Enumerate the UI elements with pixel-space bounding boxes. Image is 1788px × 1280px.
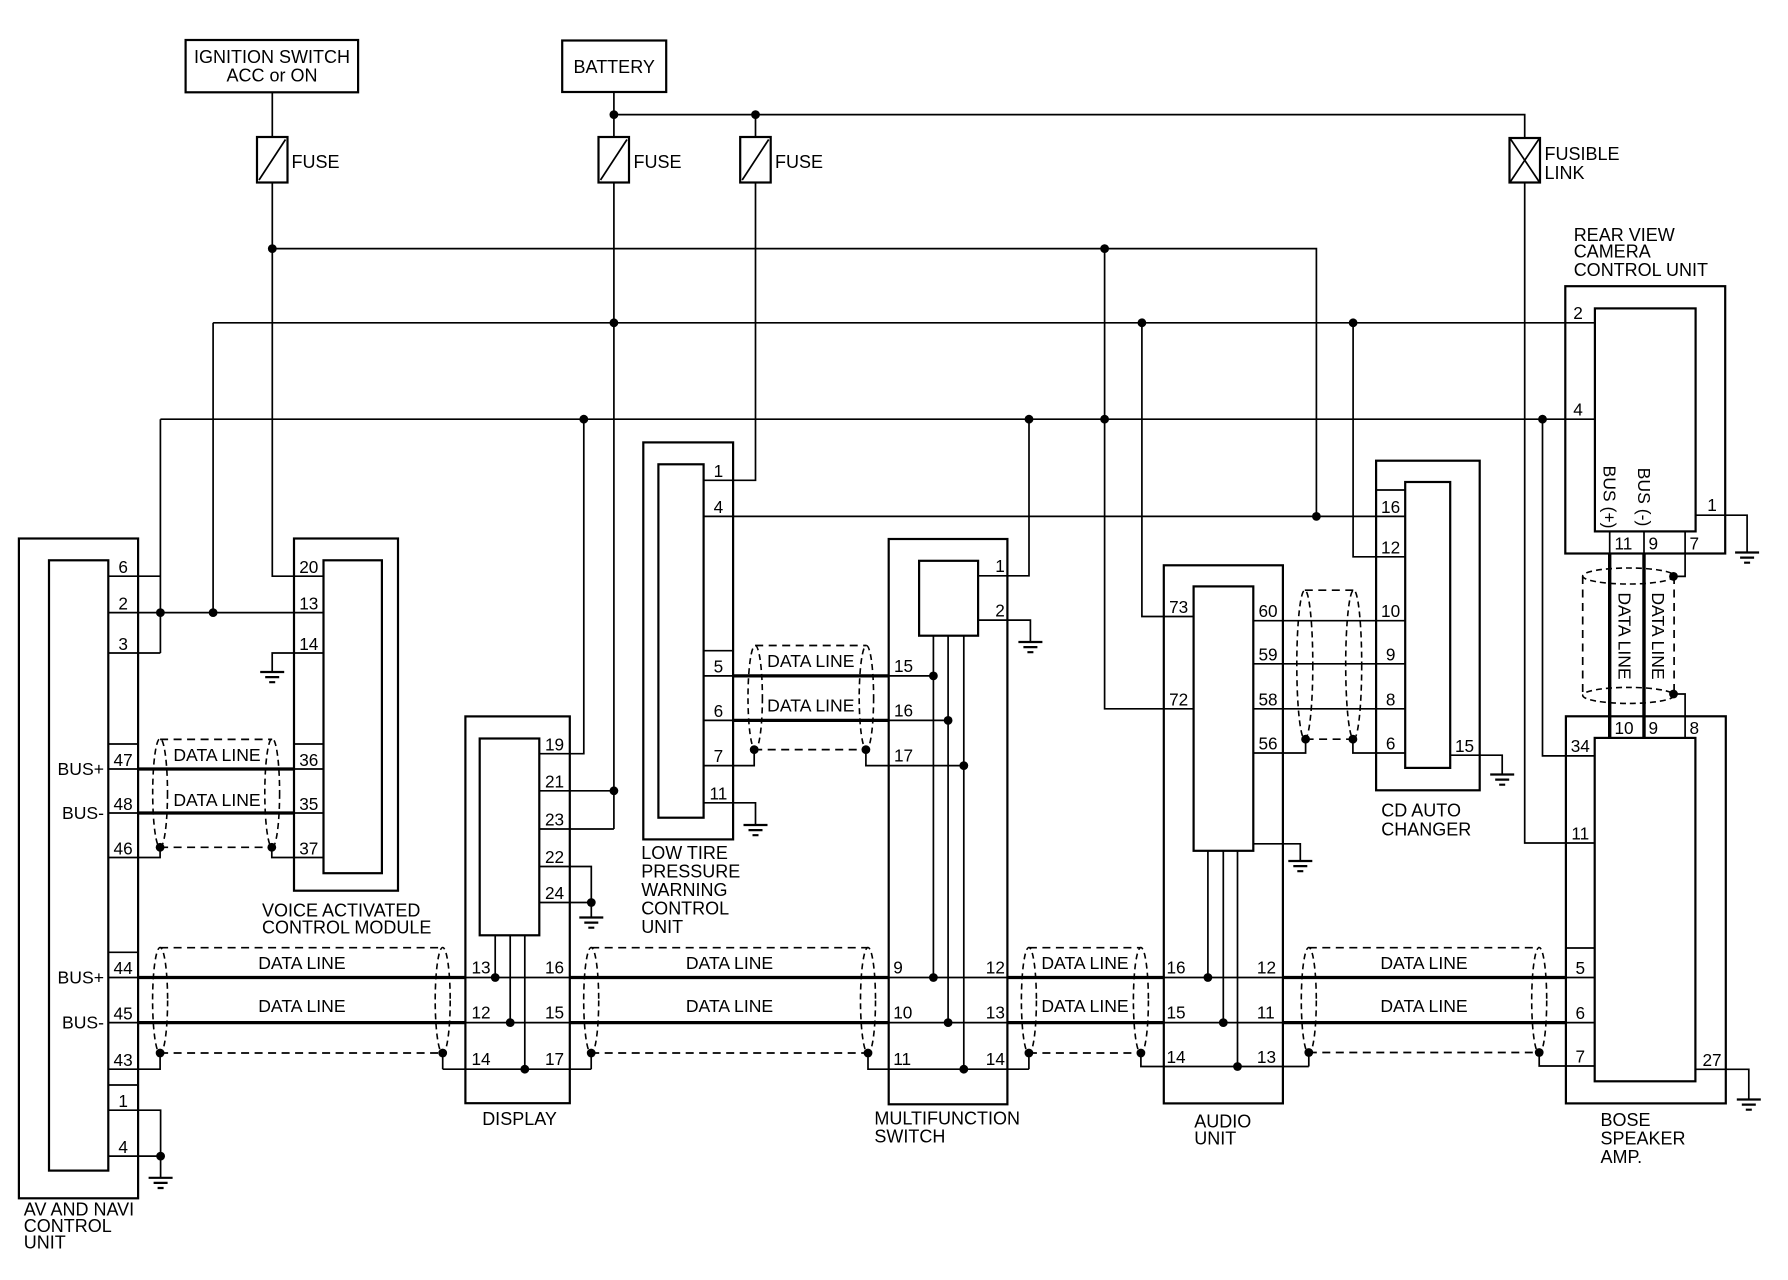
shield ellipse left LT (748, 646, 762, 750)
svg-text:DISPLAY: DISPLAY (482, 1109, 557, 1129)
svg-text:14: 14 (1167, 1047, 1187, 1067)
wire down to display ground (590, 903, 592, 918)
AV and navi control unit connector box (49, 560, 108, 1170)
svg-text:12: 12 (1257, 958, 1276, 978)
svg-text:DATA LINE: DATA LINE (258, 996, 345, 1016)
svg-text:1: 1 (1707, 495, 1717, 515)
svg-text:6: 6 (714, 701, 724, 721)
svg-text:1: 1 (995, 556, 1005, 576)
node shield dot tube2 right (864, 1049, 873, 1058)
svg-text:DATA LINE: DATA LINE (1380, 996, 1467, 1016)
svg-text:BUS (+): BUS (+) (1600, 465, 1620, 528)
node battery junction (610, 110, 619, 119)
svg-text:DATA LINE: DATA LINE (1041, 996, 1128, 1016)
shield ellipse left audio-CD (1297, 590, 1313, 739)
svg-text:BUS-: BUS- (62, 1013, 104, 1033)
wire audio ground stub (1253, 844, 1300, 861)
node ACC to audio72 branch (1100, 244, 1109, 253)
node audio shield dot right (1349, 735, 1358, 744)
low tire pressure warning control unit outer box (643, 442, 733, 839)
shield top dashed tube4 (1309, 947, 1539, 949)
divider above pin 36 (294, 743, 324, 745)
svg-text:11: 11 (709, 784, 727, 804)
AV unit label (24, 1200, 134, 1253)
wire display pin 22 stub (539, 867, 591, 903)
camera unit label (1574, 225, 1708, 280)
svg-text:59: 59 (1258, 644, 1277, 664)
node MF11 junction (959, 1065, 968, 1074)
wire MF vertical 3 (963, 636, 965, 1069)
CD auto changer outer box (1376, 461, 1480, 791)
node shield dot left (156, 843, 165, 852)
svg-text:16: 16 (1167, 958, 1186, 978)
svg-text:4: 4 (118, 1137, 128, 1157)
svg-text:19: 19 (545, 735, 564, 755)
wire BUS plus camera to bose thick (1608, 554, 1611, 738)
multifunction switch inner box (919, 561, 978, 636)
svg-text:LINK: LINK (1545, 163, 1585, 183)
svg-text:14: 14 (299, 634, 319, 654)
shield top dashed LT (755, 645, 866, 647)
svg-text:45: 45 (114, 1004, 133, 1024)
svg-text:27: 27 (1702, 1050, 1721, 1070)
svg-text:11: 11 (1257, 1003, 1275, 1023)
divider above pin 16 (1376, 489, 1405, 491)
svg-text:12: 12 (1381, 538, 1400, 558)
svg-text:9: 9 (1386, 644, 1396, 664)
svg-text:5: 5 (714, 657, 724, 677)
wire camera pin 1 to ground (1696, 515, 1748, 552)
svg-text:5: 5 (1576, 958, 1586, 978)
wire display bottom stub 13 (494, 935, 496, 977)
node shield dot right (267, 843, 276, 852)
svg-text:6: 6 (118, 557, 128, 577)
svg-text:CONTROL UNIT: CONTROL UNIT (1574, 260, 1708, 280)
node bose34 tap (1538, 415, 1547, 424)
node multifunction1 tap (1025, 415, 1034, 424)
wire audio 59 to CD 9 (1253, 663, 1405, 665)
wire AV pin 46 shield stub (108, 847, 160, 857)
svg-text:BUS+: BUS+ (58, 968, 104, 988)
svg-text:15: 15 (1167, 1003, 1186, 1023)
shield ellipse right audio-CD (1346, 590, 1362, 739)
svg-text:DATA LINE: DATA LINE (1380, 953, 1467, 973)
shield drain dashed display-MF (591, 1052, 868, 1054)
wire audio 72 feed (1105, 249, 1194, 709)
CD auto changer label (1381, 801, 1471, 840)
shield drain LT-MF dashed (754, 749, 866, 751)
shield top dashed tube2 (591, 947, 868, 949)
svg-text:13: 13 (471, 958, 490, 978)
node pin2 acc junction (156, 608, 165, 617)
shield top dashed audio-CD (1305, 589, 1354, 591)
shield drain audio-CD dashed (1306, 738, 1353, 740)
node pin1 pin4 junction (156, 1152, 165, 1161)
svg-text:1: 1 (714, 461, 724, 481)
shield ellipse tube4 left (1301, 948, 1316, 1054)
svg-text:2: 2 (995, 601, 1005, 621)
node MF17 junction (959, 761, 968, 770)
svg-text:DATA LINE: DATA LINE (1648, 592, 1668, 679)
svg-text:22: 22 (545, 847, 564, 867)
wire audio bottom stub 16 (1207, 851, 1209, 978)
svg-text:CONTROL MODULE: CONTROL MODULE (262, 918, 431, 938)
bose label (1601, 1110, 1686, 1167)
svg-text:17: 17 (545, 1049, 564, 1069)
ground voice (260, 672, 284, 682)
wire bose 34 feed (1543, 419, 1595, 756)
svg-text:2: 2 (1573, 303, 1583, 323)
wire AV pin 43 shield stub (108, 1053, 160, 1069)
svg-text:BUS-: BUS- (62, 803, 104, 823)
wire CD pin 15 to ground (1450, 755, 1502, 774)
ground CD changer (1490, 775, 1514, 785)
wire down to AV ground (160, 1156, 162, 1178)
svg-text:ACC or ON: ACC or ON (226, 66, 317, 86)
fuse F2 (599, 137, 682, 183)
low tire connector box (658, 464, 703, 817)
svg-text:DATA LINE: DATA LINE (767, 651, 854, 671)
node display 14 junction (520, 1065, 529, 1074)
rear view camera connector box (1595, 308, 1696, 531)
shield ellipse tube1 left (153, 948, 168, 1054)
shield top dashed tube1 (160, 947, 443, 949)
svg-text:7: 7 (1690, 534, 1700, 554)
wire LT pin 7 shield stub (704, 750, 755, 766)
svg-text:7: 7 (1576, 1047, 1586, 1067)
svg-text:BUS (-): BUS (-) (1634, 468, 1654, 527)
svg-text:15: 15 (1455, 736, 1474, 756)
wire battery line left drop to AV pin2 line (212, 323, 214, 613)
wire CD 12 feed (1353, 323, 1405, 557)
node audio15 junction (1219, 1018, 1228, 1027)
node audio73 tap (1138, 318, 1147, 327)
wire voice pin 37 shield stub (272, 847, 324, 857)
wire ACC2 line to camera pin 4 (160, 418, 1595, 420)
wire fuse3 tap down (755, 115, 757, 137)
wire AV pin2 to voice pin13 (108, 612, 323, 614)
wire audio bottom stub 14 (1237, 851, 1239, 1067)
wire shield segment bose pin 7 (1539, 1053, 1595, 1067)
svg-text:58: 58 (1258, 689, 1277, 709)
shield drain dashed audio-bose (1309, 1052, 1539, 1054)
wire ACC2 left drop to AV pin 6 (159, 419, 161, 653)
node shield dot tube2 left (587, 1049, 596, 1058)
svg-text:60: 60 (1258, 601, 1277, 621)
node MF16 junction (944, 716, 953, 725)
node ACC audio72 junction (1100, 415, 1109, 424)
svg-text:2: 2 (118, 594, 128, 614)
wire MF pin 17 shield stub (866, 750, 964, 766)
svg-text:11: 11 (1615, 534, 1633, 554)
wire LT pin 11 to ground (704, 803, 756, 825)
svg-text:17: 17 (894, 746, 913, 766)
multifunction switch outer box (889, 539, 1008, 1104)
wire MF vertical 2 (947, 636, 949, 1023)
wire MF pin 2 to ground (978, 620, 1030, 642)
svg-text:BOSE: BOSE (1601, 1110, 1651, 1130)
ground camera (1735, 553, 1759, 563)
svg-text:MULTIFUNCTION: MULTIFUNCTION (874, 1109, 1020, 1129)
voice activated control module connector box (324, 560, 382, 873)
node pin2 battery junction (209, 608, 218, 617)
wire voice pin 14 to ground (272, 653, 323, 672)
svg-text:4: 4 (1573, 400, 1583, 420)
shield top dashed AV-voice (160, 738, 272, 740)
ignition switch box (186, 40, 359, 92)
node LT shield dot right (862, 745, 871, 754)
svg-text:44: 44 (114, 958, 134, 978)
svg-text:BATTERY: BATTERY (574, 57, 655, 77)
svg-text:AMP.: AMP. (1601, 1147, 1643, 1167)
node MF15 junction (929, 672, 938, 681)
wire shield riser display right (590, 1053, 592, 1069)
svg-text:9: 9 (893, 958, 903, 978)
ground multifunction (1018, 642, 1042, 652)
wire shield segment audio (1141, 1053, 1309, 1067)
svg-text:35: 35 (299, 794, 318, 814)
svg-text:DATA LINE: DATA LINE (767, 696, 854, 716)
node display pin21 junction (610, 786, 619, 795)
wire BUS minus camera to bose thick (1642, 554, 1645, 738)
shield drain AV-voice dashed (160, 846, 272, 848)
shield drain dashed AV-display (160, 1052, 443, 1054)
wire camera pin 7 shield link (1674, 554, 1686, 577)
wire display bottom stub 12 (509, 935, 511, 1022)
svg-text:UNIT: UNIT (641, 917, 683, 937)
svg-text:72: 72 (1169, 690, 1188, 710)
svg-text:46: 46 (114, 839, 133, 859)
node shield dot tube1 left (156, 1049, 165, 1058)
svg-text:20: 20 (299, 557, 318, 577)
node display 13 junction (491, 973, 500, 982)
svg-text:13: 13 (299, 594, 318, 614)
svg-text:13: 13 (1257, 1047, 1276, 1067)
node shield dot tube4 right (1535, 1048, 1544, 1057)
wire MF vertical 1 (932, 636, 934, 978)
shield ellipse tube2 left (584, 948, 599, 1054)
camera bottom cell divider 3 (1684, 531, 1686, 553)
low tire label (641, 843, 740, 937)
shield dashed left camera-bose (1582, 576, 1584, 695)
svg-text:11: 11 (893, 1049, 911, 1069)
wire audio 73 feed (1142, 323, 1194, 617)
svg-text:DATA LINE: DATA LINE (258, 953, 345, 973)
svg-text:DATA LINE: DATA LINE (173, 790, 260, 810)
node shield dot tube3 right (1137, 1049, 1146, 1058)
svg-text:DATA LINE: DATA LINE (173, 745, 260, 765)
svg-text:UNIT: UNIT (24, 1233, 66, 1253)
node battery line tap (610, 318, 619, 327)
divider above pin 44 (108, 951, 138, 953)
divider above pin 47 (108, 743, 138, 745)
svg-text:15: 15 (545, 1003, 564, 1023)
wire fuse3 output down to low tire pin 1 (704, 183, 756, 481)
wire fuse2 output down to display (613, 183, 615, 830)
wire data line AV48 to voice35 (108, 812, 323, 814)
wire data line LT6 to MF16 (704, 719, 949, 721)
svg-text:8: 8 (1386, 689, 1396, 709)
node LT shield dot left (750, 745, 759, 754)
fuse F3 (740, 137, 823, 183)
node ACC branch (268, 244, 277, 253)
node MF10 junction (944, 1018, 953, 1027)
svg-text:11: 11 (1571, 824, 1589, 844)
AV and navi control unit outer box (19, 539, 138, 1199)
shield ellipse tube3 right (1133, 948, 1148, 1054)
svg-text:DATA LINE: DATA LINE (686, 953, 773, 973)
svg-text:10: 10 (893, 1003, 912, 1023)
svg-text:FUSE: FUSE (292, 152, 340, 172)
node CD12 tap (1349, 318, 1358, 327)
shield ellipse tube4 right (1532, 948, 1547, 1054)
divider above pin 1 (108, 1084, 138, 1086)
svg-text:4: 4 (714, 497, 724, 517)
voice activated control module outer box (294, 539, 398, 891)
wire shield riser display left (442, 1053, 444, 1069)
svg-text:56: 56 (1258, 734, 1277, 754)
wire data line AV47 to voice36 (108, 768, 323, 770)
wire display pin 21 stub (539, 790, 614, 792)
svg-text:CHANGER: CHANGER (1381, 820, 1471, 840)
node audio16 junction (1204, 973, 1213, 982)
node fuse3 tap (751, 110, 760, 119)
CD auto changer connector box (1405, 482, 1450, 768)
wire bose pin 27 to ground (1695, 1069, 1748, 1099)
svg-text:16: 16 (545, 958, 564, 978)
bus row B BUS- data line (108, 1022, 1594, 1024)
svg-text:3: 3 (118, 634, 128, 654)
display outer box (465, 716, 569, 1103)
node display19 tap (579, 415, 588, 424)
wire shield segment display (443, 1068, 592, 1070)
fusible link (1510, 138, 1620, 183)
svg-text:21: 21 (545, 772, 564, 792)
svg-text:14: 14 (471, 1049, 491, 1069)
svg-text:6: 6 (1386, 734, 1396, 754)
ground audio (1288, 861, 1312, 871)
svg-text:43: 43 (114, 1050, 133, 1070)
node shield dot tube1 right (438, 1049, 447, 1058)
ground AV (149, 1178, 173, 1188)
shield ellipse right AV-voice (265, 739, 280, 848)
camera bottom cell divider 2 (1643, 531, 1645, 553)
node shield dot tube3 left (1025, 1049, 1034, 1058)
svg-text:12: 12 (471, 1003, 490, 1023)
wire display bottom stub 14 (524, 935, 526, 1069)
camera bottom cell divider 1 (1609, 531, 1611, 553)
svg-text:CD AUTO: CD AUTO (1381, 801, 1461, 821)
multifunction label (874, 1109, 1020, 1147)
node display 12 junction (506, 1018, 515, 1027)
divider above bose pin 5 (1566, 947, 1595, 949)
svg-text:BUS+: BUS+ (58, 759, 104, 779)
node pin22 pin24 junction (587, 898, 596, 907)
wire battery down (613, 93, 615, 137)
wire ACC line to CD changer pin 16 (272, 249, 1316, 517)
wire low tire pin4 to CD pin16 (704, 515, 1406, 517)
bose top cell divider 1 (1609, 716, 1611, 738)
svg-text:SPEAKER: SPEAKER (1601, 1129, 1686, 1149)
wire audio bottom stub 15 (1222, 851, 1224, 1023)
shield ellipse right LT (859, 646, 873, 750)
shield ellipse top camera-bose (1583, 568, 1674, 584)
svg-text:1: 1 (118, 1091, 128, 1111)
shield ellipse tube1 right (435, 948, 450, 1054)
shield ellipse tube3 left (1021, 948, 1036, 1054)
bose top cell divider 2 (1643, 716, 1645, 738)
wire AV pin 3 stub (108, 652, 160, 654)
wire fusible link output to bose pin 11 (1525, 183, 1595, 844)
svg-text:SWITCH: SWITCH (874, 1127, 945, 1147)
svg-text:FUSE: FUSE (634, 152, 682, 172)
audio unit connector box (1194, 586, 1254, 850)
divider above pin 5 (704, 650, 734, 652)
rear view camera control unit outer box (1565, 286, 1725, 553)
wire shield segment MF (868, 1053, 1029, 1069)
svg-text:23: 23 (545, 810, 564, 830)
wire multifunction 1 feed (978, 419, 1029, 576)
svg-text:37: 37 (299, 839, 318, 859)
wire display 19 feed (539, 419, 584, 754)
svg-text:DATA LINE: DATA LINE (1614, 592, 1634, 679)
ground low tire (744, 825, 768, 835)
wire display pin 24 stub (539, 902, 591, 904)
wire AV pin 4 stub (108, 1155, 160, 1157)
bose top cell divider 3 (1684, 716, 1686, 738)
wire display pin 23 stub (539, 828, 614, 830)
svg-text:6: 6 (1576, 1003, 1586, 1023)
svg-text:10: 10 (1615, 718, 1634, 738)
node MF9 junction (929, 973, 938, 982)
wire shield riser MF right (1028, 1053, 1030, 1069)
ground bose (1737, 1100, 1761, 1110)
node audio shield dot left (1301, 735, 1310, 744)
audio unit label (1194, 1112, 1251, 1149)
shield drain dashed MF-audio (1029, 1052, 1141, 1054)
svg-text:16: 16 (1381, 497, 1400, 517)
wire audio 60 to CD 10 (1253, 620, 1405, 622)
svg-text:CONTROL: CONTROL (641, 899, 729, 919)
svg-text:8: 8 (1690, 718, 1700, 738)
node shield dot tube4 left (1304, 1048, 1313, 1057)
svg-text:DATA LINE: DATA LINE (1041, 953, 1128, 973)
svg-text:24: 24 (545, 883, 565, 903)
svg-text:34: 34 (1571, 736, 1591, 756)
shield ellipse left AV-voice (153, 739, 168, 848)
fuse F1 (257, 137, 340, 183)
svg-text:CAMERA: CAMERA (1574, 242, 1651, 262)
svg-text:UNIT: UNIT (1194, 1129, 1236, 1149)
svg-text:IGNITION SWITCH: IGNITION SWITCH (194, 47, 350, 67)
svg-text:47: 47 (114, 750, 133, 770)
display connector box (480, 739, 540, 936)
battery box (562, 41, 666, 93)
shield ellipse tube2 right (861, 948, 876, 1054)
svg-text:48: 48 (114, 794, 133, 814)
wire audio 58 to CD 8 (1253, 708, 1405, 710)
shield ellipse bottom camera-bose (1583, 687, 1674, 703)
bus row A BUS+ data line (108, 977, 1594, 979)
svg-text:12: 12 (986, 958, 1005, 978)
svg-text:9: 9 (1649, 718, 1659, 738)
wire fuse1 output down to voice pin 20 (272, 183, 323, 577)
svg-text:FUSIBLE: FUSIBLE (1545, 144, 1620, 164)
svg-text:14: 14 (986, 1049, 1006, 1069)
svg-text:36: 36 (299, 750, 318, 770)
voice module label (262, 901, 431, 938)
svg-text:7: 7 (714, 746, 724, 766)
